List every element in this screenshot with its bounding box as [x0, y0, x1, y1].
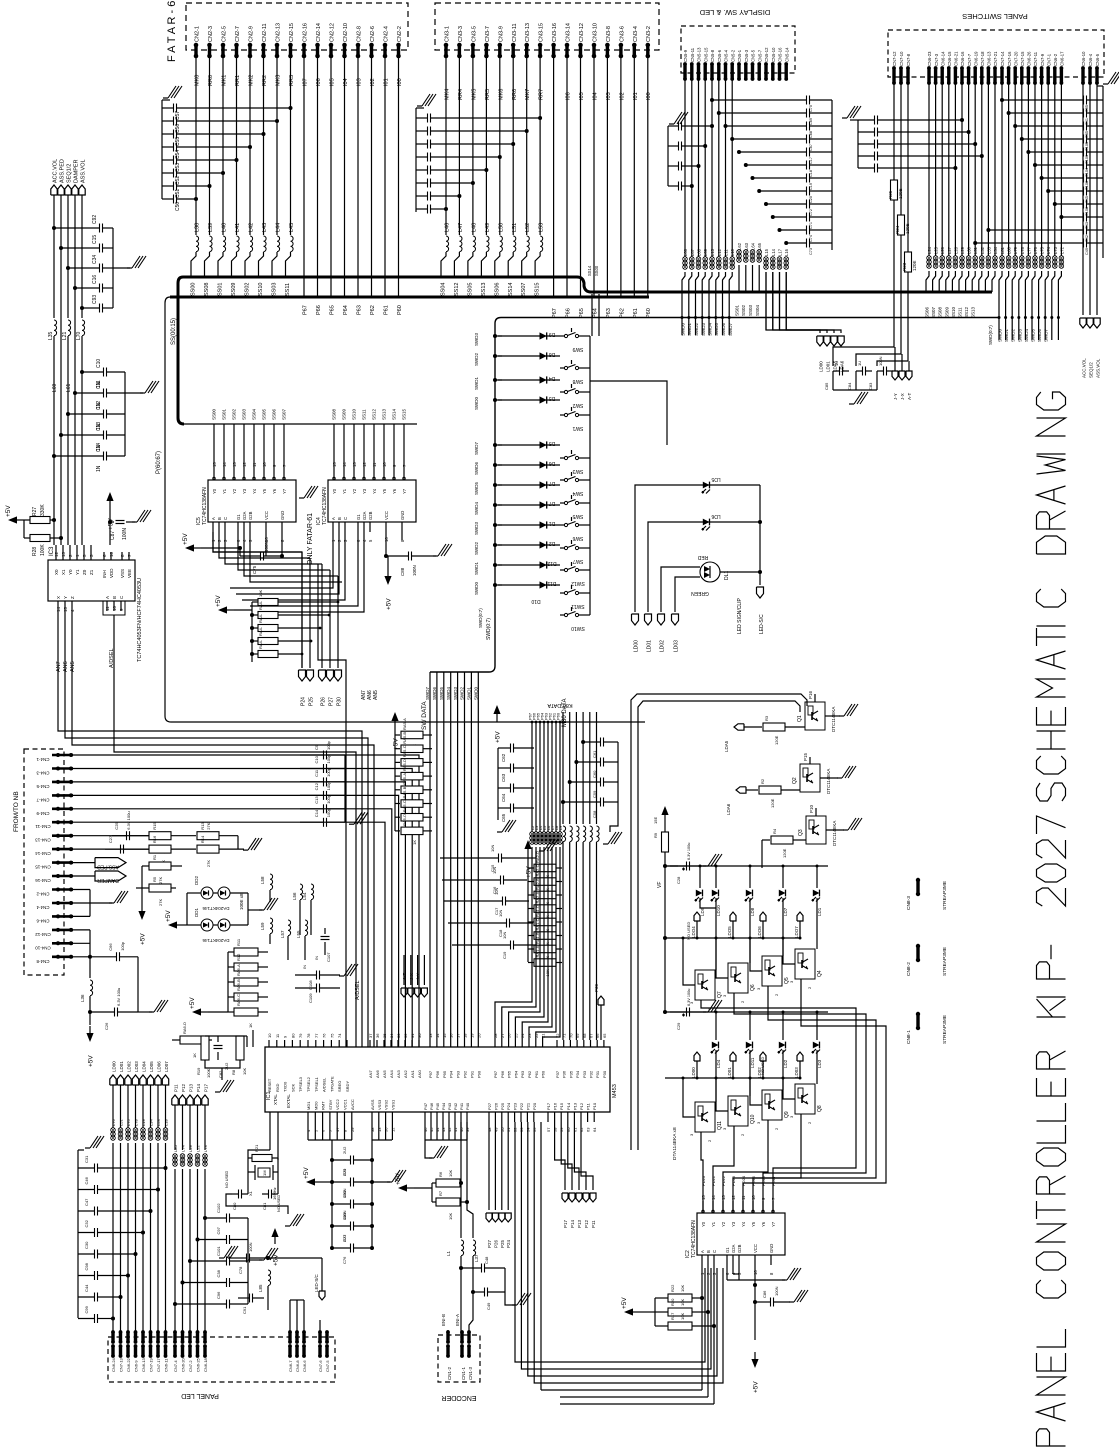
svg-text:10K: 10K — [680, 1313, 685, 1320]
svg-text:SS15: SS15 — [535, 283, 541, 296]
svg-text:L75: L75 — [126, 1119, 131, 1126]
svg-text:P63: P63 — [606, 308, 612, 318]
encoder connector CN1 + dashed box — [438, 1314, 480, 1401]
svg-text:SW3: SW3 — [572, 468, 583, 474]
svg-text:LD7: LD7 — [783, 907, 788, 916]
svg-text:P45: P45 — [435, 1102, 440, 1110]
svg-text:CN2-12: CN2-12 — [330, 23, 336, 42]
svg-text:10: 10 — [262, 462, 267, 467]
svg-text:P62: P62 — [370, 305, 376, 315]
svg-text:CN2-8: CN2-8 — [357, 26, 363, 42]
svg-text:ENCODER: ENCODER — [441, 1394, 476, 1401]
svg-text:C86: C86 — [762, 1290, 767, 1298]
svg-text:AN7: AN7 — [368, 1069, 373, 1078]
svg-text:Q2: Q2 — [792, 777, 798, 784]
svg-text:C12: C12 — [96, 401, 102, 410]
svg-text:C10: C10 — [96, 359, 102, 368]
svg-text:12: 12 — [362, 462, 367, 467]
svg-text:L27: L27 — [947, 246, 952, 254]
svg-text:CN3-5: CN3-5 — [471, 26, 477, 42]
svg-text:SS08: SS08 — [938, 306, 943, 318]
IC1 top pins AN0-AN7 — [368, 1033, 422, 1078]
svg-text:X1: X1 — [61, 569, 66, 575]
svg-text:CN7-17: CN7-17 — [156, 1357, 161, 1372]
svg-text:TC74HC138AFN: TC74HC138AFN — [322, 487, 328, 525]
svg-text:13: 13 — [232, 462, 237, 467]
svg-text:C19: C19 — [502, 951, 507, 959]
wire labels MK/RR and I0x for CN2 — [195, 75, 404, 86]
svg-text:P91: P91 — [469, 1070, 474, 1078]
svg-text:AN3: AN3 — [396, 1069, 401, 1078]
svg-text:LD00: LD00 — [634, 640, 640, 652]
svg-text:C85: C85 — [824, 382, 829, 390]
CN2 I/O wires to P6x bus — [303, 56, 404, 315]
svg-text:P12: P12 — [579, 1102, 584, 1110]
svg-text:17: 17 — [456, 1033, 461, 1038]
decoder IC2 TC74HC138AFN — [685, 1175, 785, 1275]
svg-text:SWD6: SWD6 — [474, 462, 479, 475]
LED indicator block LD5 LD6 DL1 — [632, 476, 766, 652]
svg-text:C65: C65 — [501, 813, 506, 822]
svg-text:P66: P66 — [500, 1070, 505, 1078]
svg-text:SS02: SS02 — [741, 304, 746, 316]
svg-text:SWD2: SWD2 — [1011, 329, 1016, 342]
svg-text:CN7-11: CN7-11 — [1033, 51, 1038, 66]
svg-text:SS11: SS11 — [958, 307, 963, 318]
svg-text:J-Y: J-Y — [416, 973, 421, 980]
svg-text:G2A: G2A — [362, 511, 367, 520]
svg-text:D2: D2 — [549, 540, 556, 546]
svg-text:C30: C30 — [84, 1241, 89, 1249]
svg-text:P97: P97 — [428, 1070, 433, 1078]
svg-text:CN2-7: CN2-7 — [235, 26, 241, 42]
svg-text:L35: L35 — [48, 331, 54, 340]
svg-text:CN5-1: CN5-1 — [737, 49, 742, 62]
svg-text:CN7-1: CN7-1 — [1046, 53, 1051, 66]
svg-text:CN5-4: CN5-4 — [724, 49, 729, 62]
svg-text:G2B: G2B — [248, 511, 253, 520]
svg-text:L52: L52 — [525, 223, 531, 232]
svg-text:R1: R1 — [152, 854, 157, 860]
svg-text:AVSS: AVSS — [370, 1099, 375, 1110]
svg-text:31: 31 — [410, 1033, 415, 1038]
pentagon pins P24 P25 P26 P27 P30 — [299, 552, 343, 706]
svg-text:19: 19 — [469, 1033, 474, 1038]
capacitors C108 C109 1N — [295, 964, 358, 1003]
svg-text:CN3-14: CN3-14 — [566, 23, 572, 42]
svg-text:AN2: AN2 — [403, 1069, 408, 1078]
svg-text:VSS3: VSS3 — [377, 1099, 382, 1110]
svg-text:6.3V 100u: 6.3V 100u — [687, 843, 691, 860]
svg-text:P60: P60 — [541, 1070, 546, 1078]
IC1 bottom pins P27-P20 — [487, 1102, 537, 1132]
svg-text:L34: L34 — [993, 246, 998, 254]
svg-text:C13: C13 — [96, 422, 102, 431]
inductors L60 L61 wires down — [52, 372, 82, 430]
svg-text:CN7-4: CN7-4 — [173, 1360, 178, 1372]
svg-text:AN4: AN4 — [389, 1069, 394, 1078]
svg-text:P30: P30 — [602, 1070, 607, 1078]
svg-text:P27: P27 — [487, 1239, 492, 1248]
svg-text:SS04: SS04 — [252, 408, 257, 420]
svg-text:RA6-B: RA6-B — [236, 979, 241, 991]
svg-text:P62: P62 — [527, 1070, 532, 1078]
svg-text:Y6: Y6 — [392, 488, 397, 494]
routing MCU P1x to IC2 address pins — [0, 0, 1, 1]
svg-text:LD01: LD01 — [826, 361, 831, 372]
bus taps SS14 SS00 into switch matrix — [587, 265, 599, 336]
svg-text:L32: L32 — [980, 246, 985, 254]
svg-text:L17: L17 — [778, 248, 783, 256]
svg-text:+5V: +5V — [182, 533, 189, 545]
svg-text:AN6: AN6 — [375, 1069, 380, 1078]
svg-text:+5V: +5V — [189, 997, 196, 1009]
dual diodes DD1 DD2 DA204KT146 — [165, 876, 278, 943]
svg-text:CN7-5: CN7-5 — [325, 1360, 330, 1372]
svg-text:L15: L15 — [764, 248, 769, 256]
svg-text:36: 36 — [375, 1033, 380, 1038]
svg-text:D7: D7 — [549, 500, 556, 506]
svg-text:RXD: RXD — [275, 1083, 280, 1092]
svg-text:P64: P64 — [593, 308, 599, 318]
svg-text:L62: L62 — [737, 242, 742, 250]
svg-text:SS08: SS08 — [204, 283, 210, 296]
svg-text:L41: L41 — [235, 223, 241, 232]
svg-text:1K: 1K — [192, 1053, 197, 1058]
svg-text:P26: P26 — [493, 1102, 498, 1110]
svg-text:P15: P15 — [803, 752, 808, 761]
svg-text:CN2-10: CN2-10 — [343, 23, 349, 42]
connector CN3 — [444, 23, 653, 58]
svg-text:CN7-13: CN7-13 — [119, 1357, 124, 1372]
IC1 top pins left group RESET RXD TXD0 SCK TPSEL — [267, 1033, 350, 1092]
svg-text:RA5-D: RA5-D — [402, 814, 407, 826]
svg-text:D6: D6 — [549, 460, 556, 466]
svg-text:SWD(0:7): SWD(0:7) — [486, 618, 492, 640]
svg-text:LD00: LD00 — [819, 361, 824, 372]
R1 R5 27K resistors — [136, 854, 182, 945]
svg-text:L39: L39 — [208, 223, 214, 232]
svg-text:P67: P67 — [303, 305, 309, 315]
svg-text:R3: R3 — [764, 715, 769, 721]
LD00-LD07 net stubs — [110, 1061, 169, 1128]
svg-text:VCC1: VCC1 — [343, 1099, 348, 1110]
svg-text:SS11: SS11 — [285, 283, 291, 296]
svg-text:SWD7: SWD7 — [474, 442, 479, 455]
svg-text:LD8: LD8 — [750, 907, 755, 916]
svg-text:Q3: Q3 — [798, 829, 804, 836]
svg-text:Y5: Y5 — [751, 1221, 756, 1227]
svg-text:P11: P11 — [591, 1220, 596, 1228]
svg-text:LD03: LD03 — [674, 640, 680, 652]
svg-text:13: 13 — [61, 551, 66, 557]
svg-text:P12: P12 — [584, 1219, 589, 1228]
svg-text:Y1: Y1 — [222, 488, 227, 494]
svg-text:C29: C29 — [676, 1022, 681, 1030]
svg-text:Y0: Y0 — [212, 488, 217, 494]
svg-text:LD03: LD03 — [794, 1067, 799, 1078]
svg-text:P13: P13 — [189, 1083, 194, 1092]
svg-text:D11: D11 — [547, 580, 556, 586]
svg-text:A/DSEL: A/DSEL — [322, 1077, 327, 1092]
svg-text:CN4-10: CN4-10 — [35, 945, 51, 950]
svg-text:SS09: SS09 — [231, 283, 237, 296]
P23-P20 wires to bottom bus — [515, 1122, 723, 1383]
svg-text:CN2-2: CN2-2 — [397, 26, 403, 42]
svg-text:A-T: A-T — [402, 973, 407, 981]
caps C62 C63 C64 C65 near P6x — [497, 744, 534, 833]
svg-text:D3: D3 — [549, 395, 556, 401]
svg-text:+5V: +5V — [395, 1173, 402, 1185]
svg-text:CN6-17: CN6-17 — [1060, 51, 1065, 66]
svg-text:P65: P65 — [330, 305, 336, 315]
svg-text:LD5: LD5 — [711, 476, 720, 482]
svg-text:CN4-14: CN4-14 — [35, 851, 51, 856]
svg-text:L13: L13 — [710, 248, 715, 256]
svg-text:C31: C31 — [84, 1155, 89, 1163]
svg-text:LD6: LD6 — [711, 513, 720, 519]
CN6/CN7 wires with inductor rows — [925, 83, 1101, 378]
svg-text:Y4: Y4 — [741, 1221, 746, 1227]
svg-text:DTC114EKA: DTC114EKA — [831, 707, 836, 732]
svg-text:+5V: +5V — [108, 518, 115, 530]
svg-text:Y7: Y7 — [282, 488, 287, 494]
svg-text:CN5-7: CN5-7 — [758, 49, 763, 62]
svg-text:RA4-: RA4- — [258, 600, 263, 610]
svg-text:SWD0: SWD0 — [998, 329, 1003, 342]
svg-text:CN2-3: CN2-3 — [208, 26, 214, 42]
svg-text:C62: C62 — [501, 753, 506, 762]
svg-text:CN3-15: CN3-15 — [539, 23, 545, 42]
IC2 G pins rail ground and VCC — [727, 1265, 808, 1393]
svg-text:SS13: SS13 — [971, 306, 976, 318]
svg-text:LD2: LD2 — [783, 1059, 788, 1068]
svg-text:CN5-9: CN5-9 — [683, 49, 688, 62]
svg-text:DTC114EKA: DTC114EKA — [826, 769, 831, 794]
svg-text:64: 64 — [592, 1127, 597, 1132]
svg-text:10N: 10N — [498, 910, 503, 917]
svg-text:L29: L29 — [960, 246, 965, 254]
svg-text:10: 10 — [382, 462, 387, 467]
svg-text:100p: 100p — [326, 767, 331, 777]
svg-text:CN7-7: CN7-7 — [967, 53, 972, 66]
svg-text:DD2: DD2 — [194, 876, 199, 885]
svg-text:C: C — [712, 1250, 717, 1253]
svg-text:C96: C96 — [216, 1291, 221, 1299]
svg-text:CN2-16: CN2-16 — [303, 23, 309, 42]
IC4 A/B/C routing wires down-left — [230, 532, 364, 612]
svg-text:L79: L79 — [1013, 246, 1018, 254]
svg-text:CN6-22: CN6-22 — [126, 1357, 131, 1372]
svg-text:L51: L51 — [119, 1119, 124, 1126]
svg-text:C14: C14 — [96, 443, 102, 452]
caps C85 C84 C83 with ground and J-Y J-X A-T stubs — [824, 347, 912, 404]
svg-text:SS02: SS02 — [232, 408, 237, 420]
svg-text:L16: L16 — [784, 248, 789, 256]
svg-text:C9: C9 — [314, 744, 319, 750]
svg-text:P41: P41 — [459, 1102, 464, 1110]
svg-text:CN7-21: CN7-21 — [993, 51, 998, 66]
svg-text:P31: P31 — [595, 1070, 600, 1078]
svg-text:SW5: SW5 — [572, 513, 583, 519]
svg-text:CN6-10: CN6-10 — [1081, 51, 1086, 66]
svg-text:C49: C49 — [1085, 248, 1089, 255]
svg-text:CN6-24: CN6-24 — [111, 1357, 116, 1372]
svg-text:R16: R16 — [152, 835, 157, 843]
P37-P30 vertical wires with filters — [561, 712, 622, 1040]
svg-text:CN6-7: CN6-7 — [288, 1360, 293, 1372]
svg-text:LD10: LD10 — [716, 905, 721, 916]
svg-text:SWD7: SWD7 — [728, 323, 733, 336]
svg-text:L60: L60 — [52, 383, 58, 392]
svg-text:RA5-C: RA5-C — [402, 800, 407, 812]
svg-text:P25: P25 — [500, 1239, 505, 1248]
svg-text:SWD4: SWD4 — [1024, 329, 1029, 342]
svg-text:RA5-B: RA5-B — [402, 732, 407, 744]
svg-text:STREAP3ME: STREAP3ME — [942, 881, 948, 910]
svg-text:P33: P33 — [582, 1070, 587, 1078]
connector CN5 — [683, 47, 789, 81]
svg-text:P26: P26 — [493, 1239, 498, 1248]
svg-text:CN6-18: CN6-18 — [203, 1357, 208, 1372]
svg-text:SS14: SS14 — [587, 265, 592, 276]
svg-text:TC74HC138AFN: TC74HC138AFN — [202, 487, 208, 525]
svg-text:CN5-2: CN5-2 — [731, 49, 736, 62]
svg-text:SW7: SW7 — [572, 558, 583, 564]
svg-text:P14: P14 — [570, 1219, 575, 1228]
svg-text:CN4-6: CN4-6 — [36, 918, 50, 923]
svg-text:CN7-18: CN7-18 — [980, 51, 985, 66]
svg-text:11: 11 — [372, 462, 377, 467]
bus SS(00:15) bold — [171, 277, 992, 424]
svg-text:L64: L64 — [751, 242, 756, 250]
dashed box PANEL SWITCHES — [888, 30, 1104, 77]
capacitor bank C1 C22 C23 C24 with ground — [668, 112, 714, 191]
svg-text:12: 12 — [242, 462, 247, 467]
svg-text:P24: P24 — [506, 1102, 511, 1110]
svg-text:80: 80 — [290, 1033, 295, 1038]
svg-text:P24: P24 — [506, 1239, 511, 1248]
svg-text:Y7: Y7 — [402, 488, 407, 494]
svg-text:L46: L46 — [445, 223, 451, 232]
svg-text:SS10: SS10 — [258, 283, 264, 296]
svg-text:SWD3: SWD3 — [1017, 329, 1022, 342]
CN3 I/O wires to P6x bus — [552, 56, 652, 318]
svg-text:14: 14 — [56, 606, 61, 612]
svg-text:CN6-9: CN6-9 — [134, 1360, 139, 1372]
VF supply R9 15E C28 — [653, 806, 722, 888]
svg-text:DTA114EKA x8: DTA114EKA x8 — [672, 1127, 678, 1160]
svg-text:L33: L33 — [986, 246, 991, 254]
svg-text:C49: C49 — [486, 1302, 491, 1310]
inductors L35 L21 L70 — [48, 318, 85, 372]
svg-text:C97: C97 — [216, 1226, 221, 1234]
svg-text:100p: 100p — [326, 794, 331, 804]
svg-text:120E: 120E — [774, 735, 779, 745]
svg-text:INH: INH — [102, 570, 107, 578]
svg-text:GND: GND — [769, 1244, 774, 1253]
svg-text:L1: L1 — [446, 1250, 451, 1256]
svg-text:CN4-3: CN4-3 — [36, 771, 50, 776]
svg-text:P17: P17 — [546, 1102, 551, 1110]
svg-text:CN8-3: CN8-3 — [906, 896, 912, 910]
transistors Q11 Q10 Q9 Q8 DTA114EKA — [672, 1077, 823, 1161]
svg-text:ENI-A: ENI-A — [455, 1314, 460, 1326]
svg-text:FROM/TO NB: FROM/TO NB — [13, 791, 20, 832]
svg-text:Y0: Y0 — [701, 1221, 706, 1227]
svg-text:Y0: Y0 — [68, 569, 73, 575]
svg-text:RA5-A: RA5-A — [402, 718, 407, 730]
svg-text:L14: L14 — [771, 248, 776, 256]
svg-text:R27: R27 — [32, 507, 38, 516]
svg-text:L38: L38 — [195, 223, 201, 232]
svg-text:SWD3: SWD3 — [474, 522, 479, 535]
svg-text:15: 15 — [63, 606, 68, 612]
svg-text:D8: D8 — [549, 351, 556, 357]
svg-text:AN1: AN1 — [410, 1069, 415, 1078]
svg-text:P24: P24 — [301, 697, 307, 706]
svg-text:RED: RED — [697, 554, 708, 560]
svg-text:G2A: G2A — [242, 511, 247, 520]
svg-text:P30: P30 — [594, 983, 599, 992]
svg-text:10N: 10N — [492, 867, 497, 874]
svg-text:SWD3: SWD3 — [474, 333, 479, 346]
svg-text:AN5: AN5 — [382, 1069, 387, 1078]
svg-text:CN6-5: CN6-5 — [1095, 53, 1100, 66]
svg-text:R25: R25 — [888, 190, 893, 199]
svg-text:C61: C61 — [592, 750, 597, 758]
svg-text:CN5-15: CN5-15 — [704, 47, 709, 62]
svg-text:TC74HC4053FN/HCF74HC4053U: TC74HC4053FN/HCF74HC4053U — [137, 578, 143, 662]
dashed box DISPLAY SW LED — [681, 26, 795, 73]
svg-text:C: C — [223, 517, 228, 520]
svg-text:CN6-21: CN6-21 — [954, 51, 959, 66]
svg-text:+5V: +5V — [165, 910, 172, 922]
svg-text:LDO4: LDO4 — [691, 926, 696, 938]
svg-text:C107: C107 — [326, 952, 331, 962]
svg-text:R4: R4 — [772, 828, 777, 834]
connector CN4 — [35, 753, 73, 964]
connector CN7/CN6 pins — [892, 51, 1100, 85]
svg-text:SS03: SS03 — [242, 408, 247, 420]
svg-text:C78: C78 — [238, 1266, 243, 1274]
svg-text:L45: L45 — [289, 223, 295, 232]
svg-text:C101: C101 — [216, 1246, 221, 1256]
svg-text:CN4-11: CN4-11 — [35, 824, 51, 829]
svg-text:C15: C15 — [92, 235, 98, 244]
svg-text:P61: P61 — [633, 308, 639, 318]
svg-text:P42: P42 — [453, 1102, 458, 1110]
svg-text:C34: C34 — [92, 255, 98, 264]
svg-text:C26: C26 — [104, 1022, 109, 1030]
PANEL SWITCHES title — [962, 12, 1027, 21]
svg-text:Y0: Y0 — [332, 488, 337, 494]
svg-text:R21: R21 — [254, 1144, 259, 1152]
svg-text:100p: 100p — [326, 754, 331, 764]
IC1 top pins P67-P60 — [493, 1033, 546, 1078]
svg-text:LED-S/C: LED-S/C — [314, 1273, 319, 1292]
svg-text:15: 15 — [212, 462, 217, 467]
svg-text:CN4-2: CN4-2 — [36, 892, 50, 897]
CN4-12/10/8 to L36 filter — [73, 930, 168, 1067]
svg-text:10K: 10K — [242, 1068, 247, 1075]
IC1 bottom pins P17-P10 — [546, 1102, 597, 1132]
svg-text:C59: C59 — [592, 790, 597, 798]
svg-text:2U2: 2U2 — [342, 1234, 347, 1242]
svg-text:SWD3: SWD3 — [453, 687, 458, 700]
svg-text:C109: C109 — [308, 993, 313, 1003]
svg-text:CN6-2: CN6-2 — [1053, 53, 1058, 66]
